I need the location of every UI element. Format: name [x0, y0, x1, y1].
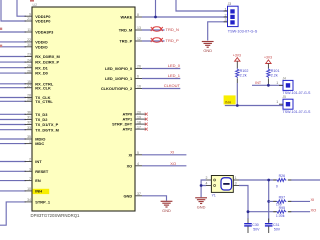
wire net TRD_N — [142, 29, 165, 31]
power +3V3 above R102 — [233, 53, 241, 61]
svg-text:TX_D0/TX_M: TX_D0/TX_M — [35, 127, 59, 132]
svg-text:26: 26 — [27, 69, 31, 73]
svg-text:R97: R97 — [279, 196, 285, 200]
svg-text:21: 21 — [27, 17, 31, 21]
svg-text:3: 3 — [235, 182, 237, 186]
no-connect X on pin 20 — [145, 113, 148, 116]
wire net INT (to J4) — [252, 84, 283, 86]
svg-text:GND: GND — [162, 208, 171, 213]
svg-text:RESET: RESET — [35, 169, 49, 174]
wire net INH (left pin 10) — [0, 190, 26, 192]
svg-text:12: 12 — [137, 37, 141, 41]
connector J3 TSW-103-07-G-S — [224, 2, 258, 34]
wire net XI row (R97) — [269, 200, 310, 202]
pin 11 VDDA3P3 of U2 — [25, 28, 55, 34]
wire to J3 pin 1 (from top edge) — [176, 0, 228, 11]
svg-text:37: 37 — [137, 192, 141, 196]
svg-text:J5: J5 — [283, 95, 287, 99]
svg-text:3: 3 — [29, 168, 31, 172]
pin 25 RX_D1 of U2 — [25, 64, 49, 70]
svg-text:TRD_N: TRD_N — [166, 27, 179, 32]
wire net XO (Y1 pin3 to R95) — [239, 186, 310, 219]
svg-text:2: 2 — [206, 176, 208, 180]
wire +3V3 to R101 — [267, 64, 269, 69]
wire net EN (left pin 7) — [0, 180, 26, 182]
crystal Y1 — [211, 176, 233, 198]
pin 15 RX_CTRL of U2 — [25, 80, 54, 86]
resistor R97 100 — [273, 196, 291, 207]
svg-text:R26: R26 — [279, 174, 285, 178]
wire net VDD1P0 (left pin 21) — [1, 0, 26, 21]
svg-text:U2: U2 — [33, 3, 38, 7]
svg-text:36: 36 — [27, 111, 31, 115]
svg-text:LED_1/GPIO_1: LED_1/GPIO_1 — [105, 76, 133, 81]
pin 2 of Y1 — [206, 176, 212, 180]
wire net RX_D2-RX_P (left pin 24) — [0, 61, 26, 63]
svg-text:17: 17 — [137, 125, 141, 129]
wire net MDIO (left pin 35) — [0, 138, 26, 140]
wire +3V3 to R102 — [236, 61, 238, 68]
ground GND at pin 37 — [161, 201, 173, 207]
svg-text:18: 18 — [137, 120, 141, 124]
node INH highlight (net label) — [224, 95, 236, 104]
svg-text:VDD1P0: VDD1P0 — [35, 19, 50, 24]
svg-text:16: 16 — [137, 85, 141, 89]
svg-text:WAKE: WAKE — [121, 15, 133, 20]
wire net RX_D0 (left pin 26) — [0, 72, 26, 74]
svg-text:1: 1 — [276, 100, 278, 104]
svg-text:TSW-101-07-G-S: TSW-101-07-G-S — [283, 110, 311, 114]
svg-text:VDDIO: VDDIO — [35, 44, 47, 49]
junction INT at R101 — [267, 84, 270, 87]
node cut-off red net label at top edge — [30, 0, 34, 2]
pin 32 TX_D1-TX_P of U2 — [25, 121, 59, 127]
svg-text:RX_D2/RX_P: RX_D2/RX_P — [35, 60, 59, 65]
net-tie twisted-pair symbol on TRD_N — [151, 27, 163, 31]
pin 18 STRP_DFT of U2 — [112, 120, 146, 126]
junction at Y1 ground leg — [200, 184, 203, 187]
svg-text:LED_1: LED_1 — [168, 73, 181, 78]
svg-text:1: 1 — [276, 81, 278, 85]
svg-text:31: 31 — [27, 116, 31, 120]
svg-text:XO: XO — [311, 207, 317, 212]
resistor R102 2.2k — [236, 68, 249, 78]
no-connect X on pin 19 — [145, 118, 148, 121]
svg-text:C31: C31 — [273, 223, 279, 227]
svg-text:ATP2: ATP2 — [123, 127, 133, 132]
svg-text:2.2k: 2.2k — [240, 74, 247, 78]
pin 19 ATP1 of U2 — [123, 115, 147, 121]
svg-text:+3V3: +3V3 — [264, 56, 272, 60]
svg-text:24: 24 — [27, 58, 31, 62]
capacitor C30 50V — [244, 219, 260, 234]
svg-text:5: 5 — [137, 151, 139, 155]
svg-text:INT: INT — [255, 81, 262, 85]
svg-text:INT: INT — [35, 159, 42, 164]
svg-text:J4: J4 — [283, 76, 287, 80]
svg-text:RX_D3/RX_M: RX_D3/RX_M — [35, 54, 59, 59]
wire net CLKOUT — [142, 88, 180, 90]
svg-text:23: 23 — [27, 53, 31, 57]
wire net VDD1P0 (left pin 9) — [17, 0, 26, 16]
svg-text:C30: C30 — [252, 223, 258, 227]
svg-text:TSW-103-07-G-S: TSW-103-07-G-S — [228, 29, 258, 33]
node INH highlight (left pin) — [33, 189, 50, 194]
svg-text:CLKOUT/GPIO_2: CLKOUT/GPIO_2 — [101, 86, 133, 91]
svg-text:25: 25 — [27, 64, 31, 68]
svg-text:32: 32 — [27, 121, 31, 125]
pin 26 LED_0-GPIO_0 of U2 — [105, 65, 142, 71]
junction on WAKE net — [154, 16, 157, 19]
svg-text:TRD_M: TRD_M — [119, 28, 132, 33]
pin 26 RX_D0 of U2 — [25, 69, 48, 75]
ground GND at Y1 — [195, 198, 207, 204]
pin 4 XO of U2 — [127, 162, 142, 168]
junction XI node at R26 — [267, 179, 270, 182]
pin 22 VDDIO of U2 — [25, 38, 48, 44]
pin 21 VDD1P0 of U2 — [25, 17, 51, 23]
svg-text:2: 2 — [224, 13, 226, 17]
pin 17 ATP2 of U2 — [123, 125, 147, 131]
junction INH at R102 — [236, 104, 239, 107]
capacitor C31 50V — [265, 219, 281, 234]
svg-text:J3: J3 — [228, 2, 232, 6]
svg-text:R101: R101 — [271, 69, 280, 73]
pin 1 of Y1 — [233, 176, 239, 180]
svg-text:20: 20 — [137, 110, 141, 114]
svg-text:INH: INH — [35, 189, 42, 194]
resistor R26 0 — [273, 174, 291, 189]
wire net TX_D2 (left pin 31) — [0, 119, 26, 121]
svg-text:10: 10 — [27, 187, 31, 191]
pin 33 TX_D0-TX_M of U2 — [25, 126, 59, 132]
wire net RX_D1 (left pin 25) — [0, 67, 26, 69]
svg-text:11: 11 — [27, 28, 31, 32]
svg-text:EN: EN — [35, 178, 41, 183]
svg-text:4: 4 — [206, 182, 208, 186]
svg-text:DP83TG720SWRNDRQ1: DP83TG720SWRNDRQ1 — [31, 213, 81, 218]
connector J4 TSW-101-07-G-S — [276, 76, 311, 95]
svg-text:TRD_P: TRD_P — [166, 38, 179, 43]
wire net VDDIO (left pin 30) — [0, 46, 26, 48]
svg-text:7: 7 — [29, 177, 31, 181]
resistor R101 2.2k — [267, 68, 280, 78]
svg-text:0: 0 — [276, 185, 278, 189]
svg-text:TRD_P: TRD_P — [119, 39, 132, 44]
svg-text:50V: 50V — [253, 228, 260, 232]
wire net RX_D3-RX_M (left pin 23) — [0, 56, 26, 58]
svg-text:RX_CLK: RX_CLK — [35, 85, 51, 90]
pin 4 of Y1 — [206, 182, 212, 186]
no-connect X on pin 17 — [145, 128, 148, 131]
pin 10 INH of U2 — [25, 187, 43, 193]
pin 29 TX_CTRL of U2 — [25, 98, 54, 104]
svg-text:RX_D0: RX_D0 — [35, 71, 48, 76]
svg-text:1: 1 — [29, 140, 31, 144]
svg-text:XO: XO — [127, 163, 133, 168]
IC U2 DP83TG720 (main PHY, yellow body) — [31, 3, 136, 218]
svg-text:2.2k: 2.2k — [271, 74, 278, 78]
pin 2 INT of U2 — [25, 158, 43, 164]
svg-text:LED_0: LED_0 — [168, 63, 181, 68]
svg-text:34: 34 — [27, 198, 31, 202]
wire net RX_CTRL (left pin 15) — [0, 83, 26, 85]
pin 3 of Y1 — [233, 182, 239, 186]
wire net WAKE (pin 8 to J3 pin 2) — [142, 0, 228, 17]
wire net TX_D0-TX_M (left pin 33) — [0, 129, 26, 131]
svg-text:TSW-101-07-G-S: TSW-101-07-G-S — [283, 91, 311, 95]
junction XO node at C30 — [247, 210, 250, 213]
no-connect X on pin 18 — [145, 123, 148, 126]
wire net TRD_P — [142, 40, 165, 42]
pin 9 VDD1P0 of U2 — [25, 12, 51, 18]
svg-text:R95: R95 — [279, 206, 285, 210]
wire J3 pin 3 to ground — [208, 22, 228, 41]
svg-text:+3V3: +3V3 — [233, 53, 241, 57]
ground GND under J3 — [202, 42, 214, 48]
wire net XI (from pin 5) — [142, 154, 186, 156]
pin 3 RESET of U2 — [25, 168, 49, 174]
svg-text:RX_D1: RX_D1 — [35, 65, 48, 70]
pin 34 STRP_1 of U2 — [25, 198, 51, 204]
svg-text:22: 22 — [27, 38, 31, 42]
pin 37 GND of U2 — [124, 192, 142, 198]
pin 1 MDC of U2 — [25, 140, 45, 146]
pin 13 TRD_M of U2 — [119, 26, 142, 32]
pin 20 ATP0 of U2 — [123, 110, 147, 116]
svg-text:XO: XO — [170, 161, 176, 166]
wire Y1 pin1 / XI node — [239, 180, 320, 222]
pin 12 TRD_P of U2 — [119, 37, 142, 43]
wire net RESET (left pin 3) — [0, 170, 26, 172]
pin 16 CLKOUT-GPIO_2 of U2 — [101, 85, 142, 91]
svg-text:4: 4 — [137, 162, 139, 166]
pin 30 VDDIO of U2 — [25, 43, 48, 49]
svg-text:19: 19 — [137, 115, 141, 119]
wire net TX_D3 (left pin 36) — [0, 113, 26, 115]
node cut-off red net label at left edge (VDDA) — [0, 28, 2, 30]
pin 8 WAKE of U2 — [121, 13, 142, 19]
pin 23 RX_D3-RX_M of U2 — [25, 53, 60, 59]
wire net VDDA3P3 (left pin 11) — [0, 31, 26, 33]
pin 7 EN of U2 — [25, 177, 41, 183]
wire net MDC (left pin 1) — [0, 143, 26, 145]
svg-text:50V: 50V — [274, 228, 281, 232]
wire net LED_1 — [142, 78, 180, 80]
svg-text:3: 3 — [224, 18, 226, 22]
svg-text:GND: GND — [203, 48, 212, 53]
svg-text:30: 30 — [27, 43, 31, 47]
svg-text:6: 6 — [137, 75, 139, 79]
pin 35 MDIO of U2 — [25, 135, 46, 141]
svg-text:VDDA3P3: VDDA3P3 — [35, 30, 54, 35]
svg-text:GND: GND — [124, 193, 133, 198]
wire net INT (left pin 2) — [0, 161, 26, 163]
net-tie twisted-pair symbol on TRD_P — [151, 38, 163, 42]
svg-text:STRP_1: STRP_1 — [35, 200, 51, 205]
pin 36 TX_D3 of U2 — [25, 111, 49, 117]
svg-text:1: 1 — [235, 176, 237, 180]
pin 5 XI of U2 — [129, 151, 142, 157]
pin 24 RX_D2-RX_P of U2 — [25, 58, 60, 64]
svg-text:LED_0/GPIO_0: LED_0/GPIO_0 — [105, 66, 132, 71]
wire R102 to INH net — [236, 78, 238, 83]
svg-text:XI: XI — [311, 197, 315, 202]
pin 28 TX_CLK of U2 — [25, 94, 51, 100]
wire net LED_0 — [142, 68, 180, 70]
svg-text:1.00k: 1.00k — [276, 214, 285, 218]
svg-text:33: 33 — [27, 126, 31, 130]
wire net RX_CLK (left pin 27) — [0, 87, 26, 89]
wire net TX_D1-TX_P (left pin 32) — [0, 124, 26, 126]
resistor R95 1.00k — [273, 206, 291, 218]
wire pin 37 to ground — [142, 196, 167, 201]
wire net INH (to J5) — [225, 105, 283, 107]
svg-text:XI: XI — [129, 152, 133, 157]
pin 31 TX_D2 of U2 — [25, 116, 49, 122]
svg-text:1: 1 — [224, 7, 226, 11]
svg-text:Y1: Y1 — [212, 193, 216, 197]
wire net XO (from pin 4) — [142, 165, 186, 167]
pin 6 LED_1-GPIO_1 of U2 — [105, 75, 142, 81]
svg-text:13: 13 — [137, 26, 141, 30]
wire net TX_CLK (left pin 28) — [0, 97, 26, 99]
wire net VDDIO (left pin 22) — [0, 41, 26, 43]
power +3V3 above R101 — [264, 56, 272, 64]
wire net STRP_1 (left pin 34) — [0, 202, 26, 225]
svg-text:35: 35 — [27, 135, 31, 139]
svg-text:26: 26 — [137, 65, 141, 69]
wire net TX_CTRL (left pin 29) — [0, 100, 26, 102]
svg-text:INH: INH — [225, 101, 232, 105]
svg-text:29: 29 — [27, 98, 31, 102]
svg-text:9: 9 — [29, 12, 31, 16]
svg-text:MDC: MDC — [35, 141, 44, 146]
connector J5 TSW-101-07-G-S — [276, 95, 311, 114]
pin 27 RX_CLK of U2 — [25, 84, 52, 90]
svg-text:CLKOUT: CLKOUT — [164, 83, 181, 88]
svg-text:27: 27 — [27, 84, 31, 88]
svg-text:2: 2 — [29, 158, 31, 162]
svg-text:XI: XI — [170, 150, 174, 155]
wire Y1 left pins to ground — [201, 180, 206, 197]
svg-text:TX_CTRL: TX_CTRL — [35, 99, 53, 104]
junction XI node at R97 row — [267, 200, 270, 203]
svg-text:R102: R102 — [240, 69, 249, 73]
node cut-off red net label at left edge (VDDIO) — [0, 45, 2, 47]
wire R101 to INT net — [267, 78, 269, 85]
svg-text:8: 8 — [137, 13, 139, 17]
svg-text:GND: GND — [197, 204, 206, 209]
